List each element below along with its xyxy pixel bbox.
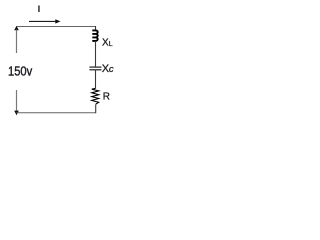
wire: inductor to capacitor [95, 41, 97, 67]
wire: top-right corner down to inductor [95, 26, 97, 30]
voltage down arrow [14, 90, 19, 115]
svg-text:L: L [109, 41, 113, 48]
resistor R [92, 88, 99, 104]
top wire [17, 26, 96, 28]
label XL [102, 37, 113, 48]
current arrow [29, 19, 61, 23]
label Xc [102, 63, 114, 75]
svg-text:150v: 150v [8, 64, 33, 79]
inductor XL [92, 30, 97, 41]
capacitor Xc [89, 67, 101, 70]
wire: capacitor to resistor [95, 70, 97, 88]
bottom wire [17, 112, 96, 114]
svg-text:I: I [38, 4, 41, 15]
svg-text:c: c [109, 64, 114, 75]
voltage up arrow [14, 26, 19, 53]
wire: resistor to bottom-right corner [95, 104, 97, 113]
svg-text:R: R [103, 92, 110, 103]
